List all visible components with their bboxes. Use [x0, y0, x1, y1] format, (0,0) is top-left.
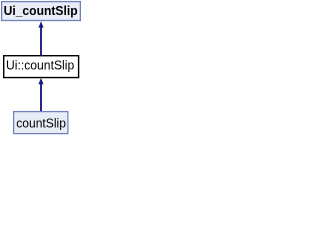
- svg-text:Ui::countSlip: Ui::countSlip: [6, 57, 74, 72]
- svg-text:countSlip: countSlip: [16, 115, 66, 130]
- svg-text:Ui_countSlip: Ui_countSlip: [4, 3, 78, 18]
